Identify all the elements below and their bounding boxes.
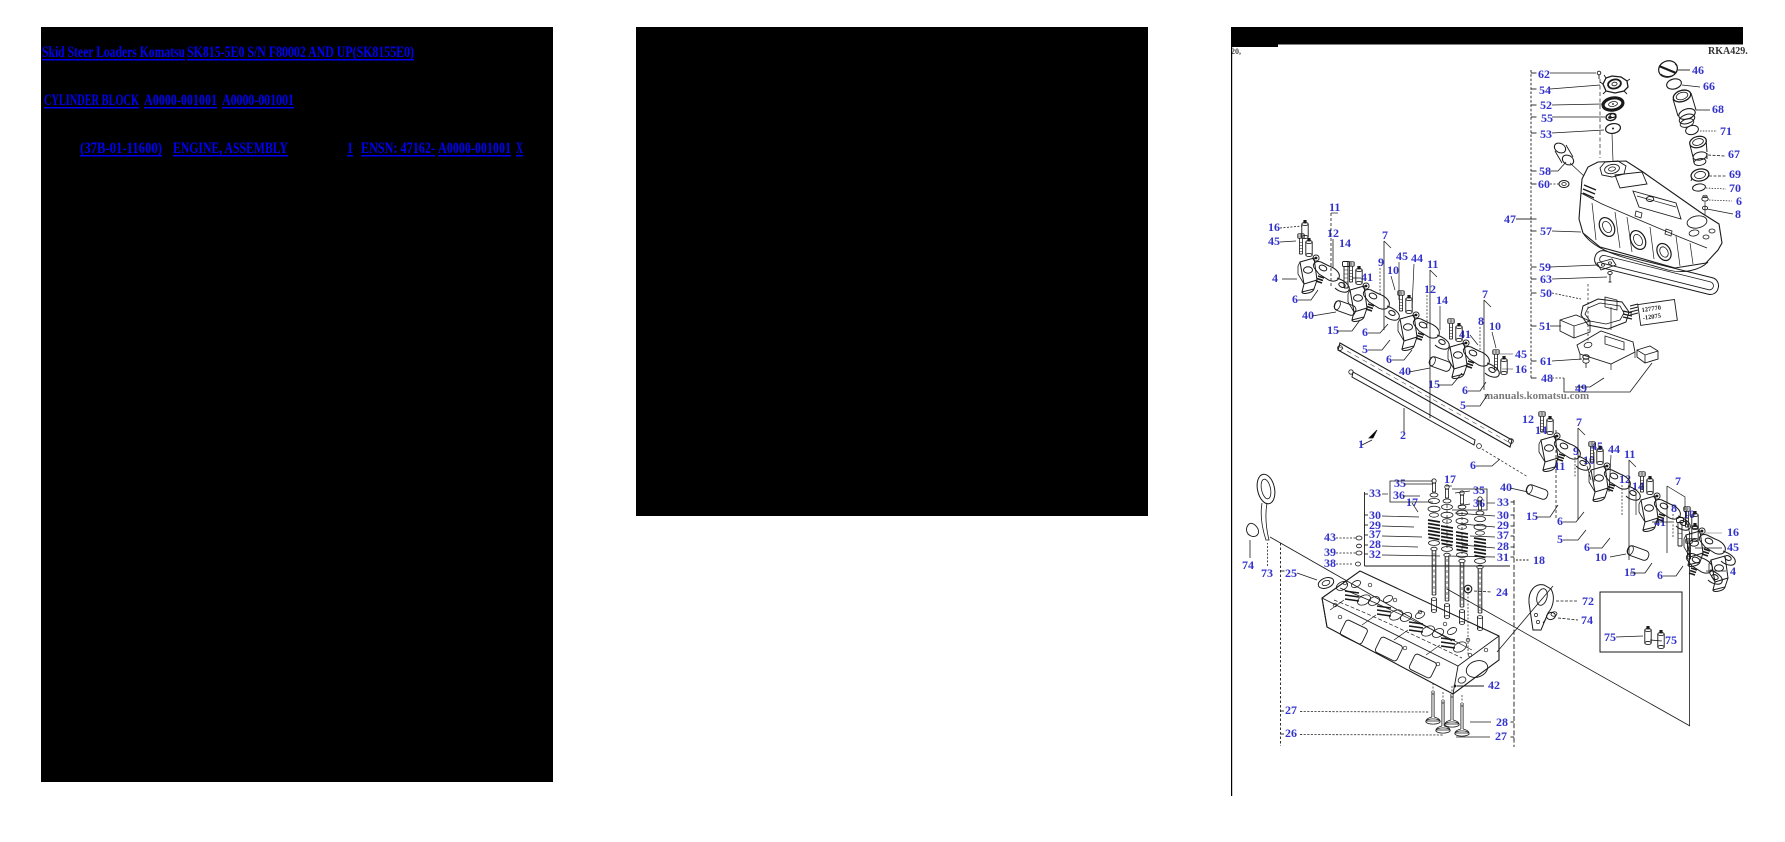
- wavy leader 27: [1300, 711, 1429, 714]
- svg-text:7: 7: [1675, 474, 1681, 488]
- svg-text:1: 1: [1358, 437, 1364, 451]
- leader 8 row1 dashed: [1479, 327, 1481, 352]
- wavy leader 26: [1300, 734, 1443, 737]
- svg-text:55: 55: [1541, 111, 1553, 125]
- cover plate 54: [1603, 76, 1628, 93]
- filler neck 68: [1672, 88, 1693, 104]
- washer 8: [1702, 206, 1707, 210]
- leader 10 row1: [1391, 276, 1395, 290]
- svg-text:X: X: [516, 140, 523, 157]
- svg-text:6: 6: [1657, 568, 1663, 582]
- spring coil near sticker: [1623, 311, 1632, 319]
- pedestal 4b right end: [1709, 556, 1728, 591]
- svg-text:53: 53: [1540, 127, 1552, 141]
- middle black panel: [636, 27, 1148, 516]
- breather box: [1637, 346, 1658, 363]
- verticals 7/11 row2: [1555, 430, 1557, 520]
- leader 25: [1297, 573, 1317, 580]
- diagram header black bar: [1231, 27, 1743, 45]
- svg-text:5: 5: [1460, 398, 1466, 412]
- part 40b: [1428, 356, 1452, 373]
- rocker shaft 2: [1338, 343, 1512, 447]
- part 40c: [1525, 484, 1549, 501]
- leader 52: [1552, 104, 1602, 105]
- sub-bracket 35/36 left: [1390, 481, 1433, 502]
- svg-text:63: 63: [1540, 272, 1552, 286]
- leader 6d: [1468, 382, 1486, 391]
- svg-text:28: 28: [1496, 715, 1508, 729]
- svg-text:58: 58: [1539, 164, 1551, 178]
- leaders row2: [1510, 488, 1528, 492]
- leader 8: [1707, 209, 1733, 214]
- ring 71: [1685, 124, 1700, 136]
- sub-bracket 35/36 right: [1452, 489, 1487, 510]
- svg-text:17: 17: [1444, 472, 1456, 486]
- cover ridge line: [1581, 193, 1707, 248]
- svg-text:A0000-001001: A0000-001001: [438, 140, 511, 157]
- leader 27 bottom: [1456, 736, 1490, 738]
- leader 53: [1552, 130, 1604, 133]
- svg-text:47: 47: [1504, 212, 1516, 226]
- leader 75a: [1616, 636, 1643, 637]
- svg-text:11: 11: [1624, 447, 1635, 461]
- svg-text:10: 10: [1489, 319, 1501, 333]
- leader 55: [1552, 116, 1605, 118]
- long callout diagonal: [1270, 537, 1452, 641]
- rod 1: [1352, 372, 1475, 445]
- left black panel: [41, 27, 553, 782]
- svg-text:5: 5: [1362, 342, 1368, 356]
- svg-text:4: 4: [1730, 564, 1736, 578]
- leader 61: [1552, 359, 1582, 361]
- svg-text:18: 18: [1533, 553, 1545, 567]
- box for part 75: [1600, 592, 1682, 652]
- svg-text:33: 33: [1369, 486, 1381, 500]
- svg-text:75: 75: [1604, 630, 1616, 644]
- svg-text:2: 2: [1400, 428, 1406, 442]
- svg-text:40: 40: [1302, 308, 1314, 322]
- svg-text:-12075: -12075: [1642, 312, 1662, 322]
- guide 75 left: [1645, 626, 1651, 645]
- nut 55: [1605, 113, 1616, 122]
- svg-text:SK815-5E0 S/N F80002 AND UP(SK: SK815-5E0 S/N F80002 AND UP(SK8155E0): [187, 44, 414, 61]
- leader 9b dashed: [1574, 457, 1576, 478]
- svg-text:6: 6: [1557, 514, 1563, 528]
- svg-text:70: 70: [1729, 181, 1741, 195]
- stud centerline: [1704, 202, 1706, 215]
- cover top panels: [1615, 172, 1647, 188]
- leader 40b: [1409, 368, 1430, 372]
- svg-text:12: 12: [1522, 412, 1534, 426]
- cylinder head outline: [1322, 571, 1499, 694]
- leader 74b dashed: [1558, 618, 1578, 620]
- box 51: [1560, 315, 1590, 338]
- svg-text:A0000-001001: A0000-001001: [222, 92, 294, 109]
- head front ports: [1339, 619, 1368, 645]
- rocker cluster row2-1: [1539, 436, 1558, 471]
- leader 45c gray: [1500, 353, 1513, 355]
- leader 12 row1-2: [1426, 295, 1428, 330]
- head spring 2: [1377, 606, 1391, 616]
- leader 62: [1550, 72, 1596, 74]
- svg-text:33: 33: [1497, 495, 1509, 509]
- leader 15b: [1438, 373, 1462, 385]
- bolts 45c/16b right of row1: [1493, 350, 1499, 370]
- svg-text:6: 6: [1292, 292, 1298, 306]
- leader 51: [1550, 325, 1561, 327]
- breather plate assembly 48/49: [1577, 331, 1635, 364]
- cover flange: [1583, 233, 1708, 272]
- svg-text:43: 43: [1324, 530, 1336, 544]
- leader 10c: [1587, 466, 1591, 480]
- leader 6 dotted: [1709, 200, 1732, 201]
- rocker cluster row2-2: [1589, 466, 1608, 501]
- svg-text:38: 38: [1324, 556, 1336, 570]
- svg-text:16: 16: [1515, 362, 1527, 376]
- leader 6e: [1476, 459, 1500, 466]
- part 40 row1: shaft end cylinder: [1333, 300, 1357, 317]
- svg-text:41: 41: [1361, 270, 1373, 284]
- leader 68: [1696, 109, 1710, 111]
- svg-text:36: 36: [1473, 496, 1485, 510]
- valve 2: [1436, 700, 1450, 733]
- leader 69: [1709, 175, 1726, 177]
- leader 57: [1552, 231, 1581, 232]
- leader 70 dotted: [1706, 188, 1726, 189]
- svg-text:6: 6: [1736, 194, 1742, 208]
- leaders valve left column: [1382, 493, 1388, 495]
- dipstick 73: [1255, 473, 1278, 506]
- bolt 16 row1: [1302, 220, 1308, 239]
- leader 4: [1282, 278, 1297, 280]
- bolt 41 row1: [1343, 262, 1350, 289]
- vertical callout line right: [1689, 532, 1691, 726]
- svg-text:12: 12: [1327, 226, 1339, 240]
- parts 43/39/38 small: [1356, 536, 1362, 540]
- svg-text:40: 40: [1500, 480, 1512, 494]
- svg-text:6: 6: [1584, 540, 1590, 554]
- leader 14d: [1635, 492, 1637, 515]
- svg-text:57: 57: [1540, 224, 1552, 238]
- cover gasket (57): [1593, 249, 1720, 296]
- bolt 74b: [1546, 611, 1557, 620]
- svg-text:9: 9: [1378, 255, 1384, 269]
- svg-text:61: 61: [1540, 354, 1552, 368]
- leader 6c: [1392, 350, 1412, 360]
- svg-text:66: 66: [1703, 79, 1715, 93]
- oil cap boss: [1600, 161, 1626, 177]
- svg-text:(37B-01-11600): (37B-01-11600): [80, 140, 162, 157]
- svg-text:51: 51: [1539, 319, 1551, 333]
- leader 2: [1403, 408, 1405, 432]
- svg-text:16: 16: [1268, 220, 1280, 234]
- leader 24: [1464, 585, 1472, 593]
- leaders 45d/44b row2: [1593, 452, 1595, 482]
- head right face circle: [1464, 658, 1490, 681]
- leader 58: [1550, 162, 1566, 171]
- nut 61: [1583, 355, 1589, 359]
- svg-text:27: 27: [1495, 729, 1507, 743]
- cap 25: [1317, 576, 1335, 591]
- leader 15 row1: [1337, 320, 1360, 331]
- svg-text:42: 42: [1488, 678, 1500, 692]
- svg-text:20,: 20,: [1231, 47, 1241, 56]
- filler port on cover: [1686, 214, 1708, 229]
- bracket 72: [1529, 585, 1553, 630]
- svg-text:74: 74: [1242, 558, 1254, 572]
- leader 5b: [1466, 394, 1488, 406]
- svg-text:27: 27: [1285, 703, 1297, 717]
- leader 45: [1280, 241, 1296, 242]
- svg-text:60: 60: [1538, 177, 1550, 191]
- gasket 50 ring: [1581, 299, 1629, 329]
- leader 50: [1552, 293, 1581, 299]
- leader 63: [1552, 277, 1607, 279]
- svg-text:62: 62: [1538, 67, 1550, 81]
- cover left end hatch: [1583, 185, 1596, 198]
- leader 8c dashed: [1672, 514, 1674, 538]
- svg-text:45: 45: [1727, 540, 1739, 554]
- plate 59: [1597, 259, 1616, 270]
- svg-text:45: 45: [1396, 249, 1408, 263]
- svg-text:CYLINDER BLOCK: CYLINDER BLOCK: [44, 92, 139, 109]
- stud 6: [1702, 197, 1708, 201]
- dashed centerline cover to gasket: [1587, 284, 1589, 342]
- svg-text:44: 44: [1411, 251, 1423, 265]
- cover side pockets: [1596, 215, 1618, 239]
- svg-text:ENGINE, ASSEMBLY: ENGINE, ASSEMBLY: [173, 140, 288, 157]
- svg-text:6: 6: [1362, 325, 1368, 339]
- rocker cluster row1-1: [1298, 258, 1317, 293]
- svg-text:67: 67: [1728, 147, 1740, 161]
- leader 48 dotted: [1552, 377, 1564, 379]
- svg-text:7: 7: [1576, 415, 1582, 429]
- connection line 58 to cover: [1570, 163, 1584, 176]
- svg-text:36: 36: [1393, 488, 1405, 502]
- svg-text:16: 16: [1727, 525, 1739, 539]
- svg-text:72: 72: [1582, 594, 1594, 608]
- svg-text:6: 6: [1470, 458, 1476, 472]
- svg-text:15: 15: [1526, 509, 1538, 523]
- leader 16b gray: [1502, 368, 1513, 370]
- bracket left valve column 33-32: [1364, 492, 1366, 566]
- svg-text:45: 45: [1268, 234, 1280, 248]
- svg-text:40: 40: [1399, 364, 1411, 378]
- valve cover outline: [1579, 161, 1722, 268]
- leader 75b: [1650, 640, 1662, 641]
- bracket right valve column 33-31 (dashed): [1513, 500, 1515, 747]
- leader 9 dashed row1: [1379, 268, 1381, 296]
- svg-text:68: 68: [1712, 102, 1724, 116]
- leader 47: [1516, 218, 1531, 220]
- diagram left border line: [1231, 27, 1232, 796]
- leader 6 row1: [1298, 290, 1318, 300]
- adapter 67: [1688, 134, 1707, 149]
- valve stack 1: [1428, 479, 1440, 613]
- ring 66: [1665, 77, 1682, 91]
- ring 70: [1692, 183, 1706, 192]
- svg-text:46: 46: [1692, 63, 1704, 77]
- svg-text:1: 1: [347, 140, 353, 157]
- svg-text:8: 8: [1671, 501, 1677, 515]
- ring 52: [1602, 96, 1624, 111]
- svg-text:6: 6: [1386, 352, 1392, 366]
- svg-text:11: 11: [1427, 257, 1438, 271]
- svg-text:8: 8: [1735, 207, 1741, 221]
- svg-text:4: 4: [1272, 271, 1278, 285]
- leader 71 dotted: [1700, 130, 1717, 132]
- svg-text:25: 25: [1285, 566, 1297, 580]
- cover ribs: [1592, 203, 1596, 240]
- svg-text:8: 8: [1478, 314, 1484, 328]
- svg-text:14: 14: [1535, 423, 1547, 437]
- svg-text:69: 69: [1729, 167, 1741, 181]
- leader 54: [1550, 85, 1600, 89]
- leader 5: [1368, 340, 1390, 350]
- svg-text:48: 48: [1541, 371, 1553, 385]
- head small holes: [1333, 603, 1337, 607]
- svg-text:45: 45: [1515, 347, 1527, 361]
- svg-text:32: 32: [1369, 547, 1381, 561]
- head spring 1: [1345, 591, 1359, 601]
- head spring 4: [1441, 638, 1455, 648]
- svg-text:50: 50: [1540, 286, 1552, 300]
- leader 49: [1575, 378, 1604, 387]
- rocker cluster row2-4: [1684, 531, 1703, 566]
- svg-text:74: 74: [1581, 613, 1593, 627]
- svg-text:15: 15: [1327, 323, 1339, 337]
- svg-text:52: 52: [1540, 98, 1552, 112]
- leader 46: [1678, 69, 1690, 71]
- verticals 7/11/12 row1: [1330, 213, 1332, 288]
- svg-text:44: 44: [1608, 442, 1620, 456]
- mouse cursor arrow: [1369, 430, 1377, 438]
- svg-text:7: 7: [1382, 228, 1388, 242]
- leader 10b row1: [1492, 332, 1496, 348]
- leader 1: [1362, 440, 1372, 445]
- svg-text:14: 14: [1436, 293, 1448, 307]
- svg-text:5: 5: [1557, 532, 1563, 546]
- leader 6b: [1368, 324, 1388, 333]
- leader 16: [1280, 226, 1302, 228]
- svg-text:11: 11: [1329, 200, 1340, 214]
- leader 67: [1708, 155, 1725, 156]
- leader 72 dashed: [1556, 600, 1578, 602]
- leaders 43/39/38: [1336, 537, 1356, 539]
- elbow 58: [1553, 141, 1568, 155]
- svg-text:54: 54: [1539, 83, 1551, 97]
- centerline dashed: [1599, 79, 1601, 158]
- svg-text:49: 49: [1575, 381, 1587, 395]
- leader 12d dashed: [1621, 485, 1623, 515]
- svg-text:ENSN: 47162-: ENSN: 47162-: [361, 140, 435, 157]
- bracket plate on gasket: [1605, 297, 1617, 310]
- bolt 63: [1608, 271, 1612, 274]
- svg-text:31: 31: [1497, 550, 1509, 564]
- leader 60: [1550, 183, 1560, 185]
- svg-text:73: 73: [1261, 566, 1273, 580]
- clip 74: [1247, 523, 1259, 536]
- nut 69: [1690, 168, 1710, 183]
- leader 10d: [1686, 520, 1690, 534]
- svg-text:75: 75: [1665, 633, 1677, 647]
- leaders 45/44 row1-2: [1398, 262, 1400, 300]
- leader 59: [1550, 265, 1598, 267]
- valve 1: [1426, 691, 1440, 724]
- valve 4: [1455, 703, 1469, 736]
- rocker cluster row1-2: [1348, 286, 1367, 321]
- head top extra lines: [1334, 600, 1462, 658]
- leader 4b: [1706, 570, 1726, 572]
- head spring 3: [1409, 622, 1423, 632]
- valve stack 2: [1441, 485, 1453, 619]
- leaders 16c/45e gray: [1699, 532, 1722, 534]
- leader 41 row1: [1352, 277, 1361, 279]
- bolt 41c row2: [1677, 518, 1684, 547]
- leader 40 row1: [1312, 312, 1336, 316]
- bracket for labels 62-48: [1530, 70, 1532, 378]
- valve stack 3: [1456, 491, 1468, 625]
- svg-text:71: 71: [1720, 124, 1732, 138]
- bolts right end row2: [1686, 539, 1692, 559]
- rod end ball 6: [1477, 444, 1482, 449]
- leader 66: [1682, 85, 1700, 87]
- bracket 27/26 bottom left (dashed): [1280, 543, 1282, 746]
- svg-text:15: 15: [1624, 565, 1636, 579]
- spring next to sticker: [1630, 304, 1638, 315]
- valve 3: [1445, 694, 1459, 727]
- leaders valve right column: [1446, 485, 1452, 487]
- shaft 2 end balls: [1338, 346, 1343, 351]
- part 40d: [1626, 545, 1650, 562]
- svg-text:7: 7: [1482, 287, 1488, 301]
- short crossing diagonal: [1497, 586, 1553, 652]
- bolt 62: [1597, 71, 1601, 75]
- svg-text:Skid Steer Loaders Komatsu: Skid Steer Loaders Komatsu: [42, 44, 185, 61]
- leader 14 row1-2: [1439, 306, 1441, 330]
- svg-text:6: 6: [1462, 383, 1468, 397]
- fuel cap 46: [1656, 58, 1679, 80]
- leader 73: [1267, 543, 1269, 566]
- leader 41b row1: [1470, 335, 1478, 345]
- svg-text:26: 26: [1285, 726, 1297, 740]
- svg-text:A0000-001001: A0000-001001: [144, 92, 217, 109]
- leader 18: [1516, 559, 1530, 561]
- valve stack 4: [1474, 497, 1486, 631]
- svg-text:35: 35: [1473, 483, 1485, 497]
- rocker cluster row1-3: [1398, 315, 1417, 350]
- rocker cluster row1-4: [1448, 343, 1467, 378]
- svg-text:10: 10: [1387, 263, 1399, 277]
- svg-text:10: 10: [1595, 550, 1607, 564]
- svg-text:24: 24: [1496, 585, 1508, 599]
- rocker cluster row2-3: [1639, 496, 1658, 531]
- guide 75 right: [1658, 630, 1664, 649]
- leader 28 bottom: [1470, 721, 1491, 723]
- hook line 48/49 to breather: [1564, 363, 1652, 392]
- leader 42: [1454, 685, 1457, 688]
- pushrod guide dashes: [1446, 505, 1448, 548]
- svg-text:14: 14: [1339, 236, 1351, 250]
- seal 53: [1605, 122, 1621, 134]
- leader 74: [1249, 540, 1251, 558]
- nut 60: [1559, 181, 1569, 188]
- sticker plate 127770-12075: [1638, 299, 1678, 325]
- svg-text:RKA429.: RKA429.: [1708, 46, 1748, 57]
